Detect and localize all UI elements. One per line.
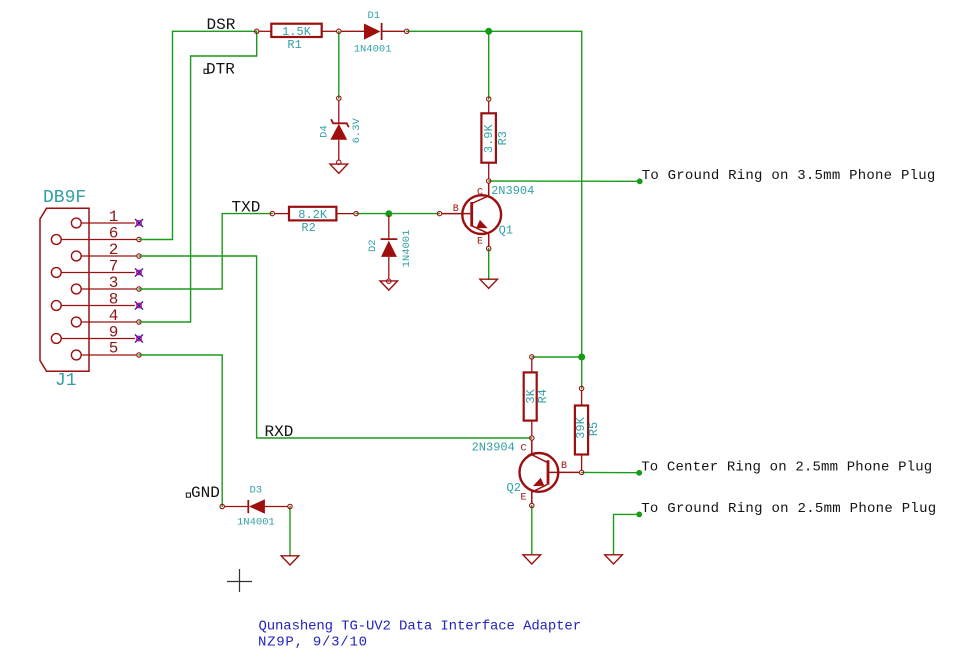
svg-text:D3: D3: [250, 485, 263, 497]
wire junction to R5: [581, 357, 583, 388]
node dot 3.5mm plug: [637, 178, 643, 184]
svg-text:R1: R1: [287, 38, 301, 52]
svg-text:39K: 39K: [574, 416, 588, 438]
svg-text:R3: R3: [496, 131, 510, 145]
resistor R3 3.9K: [481, 97, 510, 183]
svg-text:DTR: DTR: [206, 61, 235, 79]
svg-text:5: 5: [109, 340, 119, 358]
svg-text:D4: D4: [318, 125, 330, 138]
no-connect pin 8: [135, 302, 143, 310]
wire DTR vertical to pin 4: [139, 56, 191, 322]
J1 pin 9 line: [61, 338, 135, 340]
svg-text:7: 7: [109, 258, 119, 276]
label anchor square DTR: [204, 69, 208, 73]
svg-text:E: E: [521, 493, 527, 504]
wire DSR vertical to pin 6: [139, 31, 173, 239]
wire RXD from pin 2 to R4 bottom: [139, 256, 532, 438]
svg-text:2N3904: 2N3904: [472, 441, 515, 455]
J1 pin 3 line: [81, 288, 137, 290]
wire junction link to R4: [532, 356, 582, 358]
svg-text:C: C: [521, 444, 527, 455]
J1 pin 5 circle: [71, 350, 81, 360]
no-connect pin 1: [135, 219, 143, 227]
J1 pin 2 circle: [71, 251, 81, 261]
wire DTR horizontal: [191, 55, 257, 57]
wire Q2 emitter to ground: [531, 506, 533, 555]
diode D1 1N4001: [341, 10, 409, 56]
svg-text:B: B: [561, 461, 567, 472]
svg-text:3.9K: 3.9K: [482, 124, 496, 154]
svg-text:1.5K: 1.5K: [282, 25, 312, 39]
wire long drop to R4/R5 junction: [581, 31, 583, 357]
ground 2.5mm plug: [605, 555, 623, 564]
wire D4 feed: [338, 31, 340, 98]
wire drop to R3: [488, 31, 490, 99]
wire D3 to ground: [289, 507, 291, 556]
ground below D2: [380, 281, 398, 290]
J1 pin 6 circle: [51, 235, 61, 245]
resistor R1 1.5K: [255, 24, 341, 52]
wire TXD from pin 3: [139, 214, 272, 289]
svg-text:2: 2: [109, 241, 119, 259]
J1 pin 8 circle: [51, 301, 61, 311]
svg-text:To Ground Ring on 2.5mm Phone: To Ground Ring on 2.5mm Phone Plug: [641, 501, 936, 517]
J1 pin 8 line: [61, 305, 135, 307]
svg-text:Qunasheng TG-UV2 Data Interfac: Qunasheng TG-UV2 Data Interface Adapter: [259, 619, 582, 635]
wire DTR riser at R1 pin: [256, 31, 258, 56]
wire R2 to Q1 base: [356, 213, 439, 215]
J1 pin 4 line: [81, 321, 137, 323]
wire Q1 collector row to 3.5mm plug: [489, 180, 640, 182]
connector J1 DB9F outline: [40, 208, 89, 371]
junction TXD/D2: [385, 210, 392, 217]
svg-text:6.3V: 6.3V: [351, 118, 363, 144]
resistor R5 39K: [574, 386, 601, 474]
svg-text:D1: D1: [368, 10, 381, 22]
svg-text:2N3904: 2N3904: [491, 184, 534, 198]
svg-text:3: 3: [109, 274, 119, 292]
svg-text:R5: R5: [587, 422, 601, 436]
no-connect pin 9: [135, 335, 143, 343]
zener D4 6.3V: [318, 96, 363, 165]
diode D2 1N4001: [367, 215, 413, 283]
svg-text:4: 4: [109, 307, 119, 325]
sheet origin cross marker: [227, 569, 252, 592]
J1 connected pin end circles: [137, 237, 141, 241]
ground below D3: [281, 556, 299, 565]
node dot 2.5mm ground: [636, 512, 642, 518]
svg-text:TXD: TXD: [232, 199, 261, 217]
wire DSR horizontal: [173, 30, 257, 32]
junction top rail: [485, 28, 492, 35]
J1 pin 3 circle: [71, 284, 81, 294]
wire top rail D1 to corner: [407, 30, 582, 32]
diode D3 1N4001: [220, 485, 292, 529]
wire Q1 emitter to ground: [488, 249, 490, 280]
svg-text:R4: R4: [536, 389, 550, 403]
svg-text:RXD: RXD: [265, 423, 294, 441]
svg-text:DB9F: DB9F: [43, 188, 86, 208]
wire 2.5mm ground link: [614, 514, 640, 554]
svg-text:DSR: DSR: [207, 16, 236, 34]
resistor R2 8.2K: [270, 207, 358, 235]
svg-text:D2: D2: [367, 239, 379, 252]
J1 pin 2 line: [81, 255, 137, 257]
label anchor square GND: [186, 493, 190, 497]
wire Q2 base to 2.5mm center: [582, 471, 639, 473]
resistor R4 3K: [524, 355, 551, 441]
svg-text:6: 6: [109, 225, 119, 243]
ground below Q2: [523, 555, 541, 564]
ground below Q1: [480, 279, 498, 288]
transistor Q1 2N3904: [437, 183, 534, 251]
svg-text:To Ground Ring on 3.5mm Phone: To Ground Ring on 3.5mm Phone Plug: [642, 168, 936, 184]
svg-text:C: C: [477, 188, 483, 199]
J1 pin 5 line: [81, 354, 137, 356]
svg-text:1: 1: [109, 208, 119, 226]
J1 pin 9 circle: [51, 334, 61, 344]
J1 pin 4 circle: [71, 317, 81, 327]
svg-text:J1: J1: [55, 371, 77, 391]
ground below D4: [330, 164, 348, 173]
transistor Q2 2N3904: [472, 440, 580, 507]
svg-text:GND: GND: [191, 484, 220, 502]
svg-text:To Center Ring on 2.5mm Phone: To Center Ring on 2.5mm Phone Plug: [641, 459, 932, 475]
svg-text:Q2: Q2: [507, 481, 521, 495]
J1 pin 7 line: [61, 272, 135, 274]
svg-text:1N4001: 1N4001: [401, 230, 413, 268]
svg-text:1N4001: 1N4001: [237, 517, 275, 529]
J1 pin 1 circle: [71, 218, 81, 228]
J1 pin 6 line: [61, 239, 137, 241]
node dot 2.5mm center: [636, 470, 642, 476]
junction R4/R5: [578, 354, 585, 361]
J1 pin 1 line: [81, 222, 135, 224]
svg-text:NZ9P, 9/3/10: NZ9P, 9/3/10: [258, 634, 367, 650]
svg-text:8: 8: [109, 291, 119, 309]
svg-text:E: E: [477, 237, 483, 248]
no-connect pin 7: [135, 269, 143, 277]
wire GND pin 5: [139, 355, 222, 507]
svg-text:1N4001: 1N4001: [354, 44, 392, 56]
svg-text:B: B: [453, 204, 459, 215]
svg-text:Q1: Q1: [499, 224, 513, 238]
svg-text:R2: R2: [301, 221, 315, 235]
J1 pin 7 circle: [51, 268, 61, 278]
